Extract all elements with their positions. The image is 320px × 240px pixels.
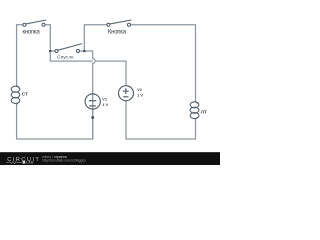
wire dot2 up to SW3 xyxy=(84,25,106,51)
wire hop to V1 through V1 symbol xyxy=(92,63,94,139)
wire right column bottom xyxy=(126,119,196,139)
switch SW1 кнопка xyxy=(23,20,46,26)
svg-text:Спус.м.: Спус.м. xyxy=(57,54,74,60)
junction dot1 xyxy=(49,50,52,53)
junction dot2 xyxy=(83,50,86,53)
svg-text:кнопка: кнопка xyxy=(22,28,40,35)
watermark bar xyxy=(0,152,220,165)
svg-text:V1: V1 xyxy=(102,97,108,102)
wire SW1 to SW2 vertical xyxy=(45,25,50,50)
svg-text:http//circuitlab.com/c/9hggrp: http//circuitlab.com/c/9hggrp xyxy=(42,158,86,162)
wire left column bottom xyxy=(17,104,93,139)
svg-text:V2: V2 xyxy=(137,87,143,92)
svg-text:СТ: СТ xyxy=(22,92,28,97)
watermark logo waveform xyxy=(6,161,22,163)
wire dot2 to bend and down to hop xyxy=(84,51,92,59)
svg-text:1 V: 1 V xyxy=(137,93,143,98)
wire V1 column bottom xyxy=(92,109,94,139)
voltage source V2 xyxy=(119,86,134,101)
svg-text:ЛТ: ЛТ xyxy=(201,109,207,114)
junction dot below V1 xyxy=(91,116,94,119)
voltage source V1 xyxy=(85,94,100,109)
watermark logo LAB xyxy=(23,161,26,164)
wire hop over bus xyxy=(93,59,95,64)
svg-text:Кнопка: Кнопка xyxy=(108,28,127,35)
switch SW3 Кнопка xyxy=(107,20,131,26)
wire bus from dot1 down and right (left of hop) xyxy=(50,51,92,61)
svg-text:1 V: 1 V xyxy=(102,102,108,107)
wire bus right of hop to V2 top xyxy=(95,61,126,86)
wire SW2 right terminal to dot2 xyxy=(80,50,85,52)
wire dot1 to SW2 left terminal xyxy=(52,50,55,52)
switch SW2 Спус.м. xyxy=(55,44,82,53)
wire V2 bottom xyxy=(125,101,127,139)
wire left column top xyxy=(17,25,23,86)
inductor L2 ЛТ xyxy=(190,101,199,119)
inductor L1 СТ xyxy=(11,85,20,104)
svg-text:LAB: LAB xyxy=(26,161,34,165)
wire SW3 right to right column down to L2 xyxy=(131,25,196,101)
